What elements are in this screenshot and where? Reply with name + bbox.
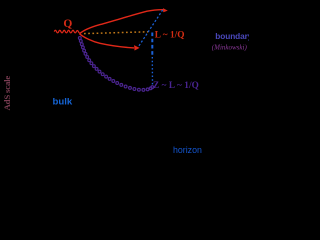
svg-text:(Minkowski): (Minkowski) [212,44,248,52]
svg-text:bulk: bulk [53,96,73,107]
svg-text:Z ~ L ~ 1/Q: Z ~ L ~ 1/Q [153,80,199,90]
svg-text:horizon: horizon [173,145,202,155]
svg-text:Q: Q [63,18,72,30]
svg-text:L ~ 1/Q: L ~ 1/Q [155,30,185,40]
svg-text:boundary: boundary [215,31,249,41]
svg-text:AdS scale: AdS scale [2,76,12,111]
